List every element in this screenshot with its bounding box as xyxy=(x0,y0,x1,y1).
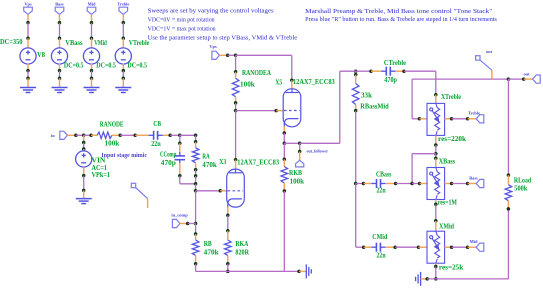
pin stub RA 2 xyxy=(195,163,197,170)
wire CTreble to XTreble corner xyxy=(404,70,436,72)
wire to CComp junction xyxy=(195,176,197,184)
node X5 plate pin xyxy=(290,78,294,82)
pin stub XTreble wiper xyxy=(419,118,427,120)
triode X5 12AX7_ECC83 xyxy=(283,89,301,127)
pin end node source VTreble + xyxy=(122,36,126,40)
pin stub below port Mid xyxy=(91,14,93,22)
pin stub XMid 1 xyxy=(435,221,437,231)
pin end node V8 - xyxy=(26,69,30,73)
wire RA upper xyxy=(195,135,197,141)
resistor RA 470k xyxy=(192,148,199,163)
svg-text:CTreble: CTreble xyxy=(384,60,406,67)
wire CComp upper xyxy=(179,135,181,143)
wire out line xyxy=(412,78,508,80)
node CComp pin 1 xyxy=(178,141,182,145)
ground under VIN xyxy=(76,199,92,204)
svg-text:RB: RB xyxy=(204,241,212,248)
wire RB to ground rail xyxy=(195,264,197,272)
ground pin stub VTreble xyxy=(122,78,124,87)
pin stub CComp 2 xyxy=(179,163,181,176)
pin stub CTreble 1 xyxy=(371,70,381,72)
pin stub RANODEA 2 xyxy=(235,97,237,103)
ground (middle rail) xyxy=(306,264,311,278)
node RB pin 1 xyxy=(194,232,198,236)
wire CComp to RA bottom xyxy=(180,183,196,185)
port Vps (mid) xyxy=(212,51,220,59)
svg-text:DC=0.5: DC=0.5 xyxy=(96,63,116,70)
wire follower node right xyxy=(284,142,299,144)
capacitor CTreble 470p xyxy=(381,67,395,76)
wire Mid to source xyxy=(91,23,93,38)
junction follower node xyxy=(283,142,287,146)
wire RBassMid node down to CMid xyxy=(355,184,357,248)
node CMid pin 2 xyxy=(393,245,397,249)
svg-text:33k: 33k xyxy=(361,93,372,100)
wire CB to CComp tap xyxy=(170,134,180,136)
svg-text:RLoad: RLoad xyxy=(514,178,531,185)
wire CBass to riser junction xyxy=(396,183,413,185)
wire XBass control to port xyxy=(452,183,468,185)
node CB pin 2 xyxy=(168,134,172,138)
pin stub XMid control xyxy=(445,246,452,248)
wire to X3 grid node xyxy=(195,184,197,191)
pin stub port in xyxy=(67,134,76,136)
svg-text:22n: 22n xyxy=(377,253,386,260)
svg-text:12AX7_ECC83: 12AX7_ECC83 xyxy=(237,160,279,167)
node RKA pin 1 xyxy=(226,229,230,233)
port Treble xyxy=(119,7,128,14)
node RANODEA pin 2 xyxy=(234,101,238,105)
pin end node Vps xyxy=(26,21,30,25)
wire CBass node riser to XTreble bottom xyxy=(412,153,436,155)
pin stub RBassMid 2 xyxy=(355,105,357,111)
ground under VTreble xyxy=(115,88,131,93)
pin stub CB 1 xyxy=(135,134,148,136)
wire RA lower xyxy=(195,170,197,176)
svg-text:CBass: CBass xyxy=(376,172,392,179)
svg-text:Mid: Mid xyxy=(470,239,478,244)
svg-text:VPk=1: VPk=1 xyxy=(92,172,111,179)
svg-text:820R: 820R xyxy=(235,250,249,257)
pin stub X5 cathode xyxy=(283,126,285,133)
pin stub XBass 1 xyxy=(435,158,437,167)
pin stub VIN - xyxy=(83,167,85,175)
wire XTreble control to port xyxy=(452,118,468,120)
pin stub VBass + xyxy=(59,38,61,48)
wire VIN tap to RANODE xyxy=(84,134,91,136)
node RANODE pin 1 xyxy=(89,134,93,138)
node CComp pin 2 xyxy=(178,174,182,178)
pin stub RKB 1 xyxy=(283,159,285,166)
ground pin stub VMid xyxy=(91,78,93,87)
wire in to VIN tap xyxy=(76,134,84,136)
pin stub CBass 2 xyxy=(386,183,396,185)
svg-text:Mid: Mid xyxy=(88,1,96,6)
svg-text:470p: 470p xyxy=(384,77,397,84)
pin stub XTreble 1 xyxy=(435,95,437,104)
node XBass pin 1 xyxy=(434,156,438,160)
node RBassMid pin 2 xyxy=(354,109,358,113)
wire RANODEA upper xyxy=(235,55,237,72)
wire XMid to ground rail xyxy=(435,267,437,279)
wire riser to RBassMid junction xyxy=(340,70,356,72)
node ground pin (middle rail) xyxy=(297,270,301,274)
svg-text:470p: 470p xyxy=(161,160,176,167)
pin stub XBass 2 xyxy=(435,200,437,205)
pin stub below port Bass xyxy=(59,14,61,22)
svg-text:X5: X5 xyxy=(275,80,283,87)
junction out_follower tap xyxy=(298,142,302,146)
node XTreble control pin xyxy=(450,117,454,121)
resistor RANODEA 100k xyxy=(232,78,239,97)
wire down to XTreble top xyxy=(435,71,437,94)
ground under VBass xyxy=(52,88,68,93)
pin stub X3 grid xyxy=(220,190,227,192)
node XBass wiper pin xyxy=(418,182,422,186)
junction CComp / RA column xyxy=(194,182,198,186)
node RLoad pin 2 xyxy=(507,207,511,211)
wire Treble to source xyxy=(122,23,124,38)
pin end node source VMid + xyxy=(90,36,94,40)
node Vps port pin xyxy=(226,54,230,58)
pin stub VBass - xyxy=(59,64,61,71)
wire RANODE to CB xyxy=(120,134,135,136)
svg-text:CComp: CComp xyxy=(160,151,177,158)
svg-text:100k: 100k xyxy=(240,82,255,89)
ground pin stub (middle rail) xyxy=(299,270,306,272)
pin stub XMid wiper xyxy=(419,246,428,248)
pin stub RB 1 xyxy=(195,234,197,240)
pin end node VMid - xyxy=(90,69,94,73)
node Bass port pin xyxy=(466,182,470,186)
node CBass pin 2 xyxy=(394,182,398,186)
svg-text:470k: 470k xyxy=(204,250,219,257)
ground pin node VBass xyxy=(58,76,62,80)
pin stub VIN + xyxy=(83,149,85,151)
ground pin stub VIN xyxy=(83,190,85,198)
svg-text:out_follower: out_follower xyxy=(307,149,329,154)
node Mid port pin xyxy=(466,245,470,249)
node X3 cathode pin xyxy=(226,214,230,218)
ground pin node VTreble xyxy=(122,76,126,80)
pin stub below port Treble xyxy=(122,14,124,22)
capacitor CB 22n xyxy=(148,131,162,140)
svg-text:CMid: CMid xyxy=(372,234,387,241)
wire X5 cathode down xyxy=(283,133,285,143)
probe marker out xyxy=(476,56,492,70)
wire RBassMid upper xyxy=(355,71,357,74)
capacitor CComp 470p xyxy=(175,152,185,163)
pin stub CTreble 2 xyxy=(396,70,404,72)
wire right ground rail xyxy=(427,278,508,280)
pin stub RKB 2 xyxy=(283,183,285,191)
node CBass pin 1 xyxy=(362,182,366,186)
node out_follower pin xyxy=(298,150,302,154)
wire CComp down xyxy=(179,176,181,184)
svg-text:100k: 100k xyxy=(105,140,120,147)
junction XTreble bottom / XBass wiper branch xyxy=(434,152,438,156)
junction Vps / RANODEA xyxy=(234,54,238,58)
junction RA top corner xyxy=(194,134,198,138)
node VIN pin + xyxy=(82,147,86,151)
junction XMid / right ground rail xyxy=(434,277,438,281)
wire corner to CMid xyxy=(356,246,364,248)
svg-text:DC=0.5: DC=0.5 xyxy=(127,63,147,70)
port Bass xyxy=(476,179,484,187)
voltage source VMid xyxy=(83,48,99,64)
pin stub CMid 1 xyxy=(364,246,371,248)
wire CComp tap to RA corner xyxy=(180,134,196,136)
svg-text:Vps: Vps xyxy=(209,44,217,49)
junction RANODEA / X5 grid / X3 plate xyxy=(234,109,238,113)
node RLoad pin 1 xyxy=(507,173,511,177)
svg-text:V8: V8 xyxy=(37,52,46,59)
wire to CBass xyxy=(356,183,364,185)
wire XBass to XMid xyxy=(435,204,437,220)
probe marker stub (out) xyxy=(491,70,493,79)
node VIN wire top xyxy=(82,141,86,145)
wire XTreble to branch node xyxy=(435,145,437,154)
svg-text:Use the parameter setup to ste: Use the parameter setup to step VBass, V… xyxy=(148,35,298,41)
node XTreble wiper pin xyxy=(418,117,422,121)
pin end node VTreble - xyxy=(122,69,126,73)
wire to X5 grid xyxy=(236,110,277,112)
svg-text:XBass: XBass xyxy=(439,159,456,166)
ground pin node VMid xyxy=(90,76,94,80)
voltage source V8 xyxy=(20,48,36,64)
node X5 grid pin xyxy=(274,109,278,113)
wire RANODEA to grid node xyxy=(235,103,237,111)
pin stub port Vps xyxy=(220,54,228,56)
svg-text:470k: 470k xyxy=(202,162,217,169)
pin stub RKA 1 xyxy=(227,231,229,240)
potentiometer XTreble res=220k xyxy=(427,103,445,135)
svg-text:Treble: Treble xyxy=(468,111,480,116)
wire to VIN + xyxy=(83,143,85,149)
junction in_comp / RB xyxy=(194,222,198,226)
node VIN ground pin xyxy=(82,189,86,193)
pin stub X3 cathode xyxy=(227,207,229,215)
svg-text:Input stage mimic: Input stage mimic xyxy=(101,153,147,159)
svg-text:RANODEA: RANODEA xyxy=(242,70,271,77)
ground pin stub V8 xyxy=(27,78,29,87)
pin stub RANODEA 1 xyxy=(235,72,237,79)
ground pin node V8 xyxy=(26,76,30,80)
pin stub X3 plate xyxy=(235,160,237,170)
pin stub CMid 2 xyxy=(386,246,395,248)
pin stub CB 2 xyxy=(163,134,170,136)
svg-text:out: out xyxy=(523,72,530,77)
ground under VMid xyxy=(84,88,100,93)
node RB pin 2 xyxy=(194,262,198,266)
node Treble port pin xyxy=(466,117,470,121)
capacitor CMid 22n xyxy=(371,243,385,252)
node RA pin 2 xyxy=(194,168,198,172)
voltage source VIN xyxy=(76,151,92,167)
wire RKA to ground rail xyxy=(227,264,229,272)
pin stub VMid + xyxy=(91,38,93,48)
junction VIN tap xyxy=(82,134,86,138)
node ground pin (right rail) xyxy=(425,277,429,281)
probe marker (floating, near VIN) xyxy=(131,183,147,198)
pin stub port Bass xyxy=(468,183,477,185)
pin stub RB 2 xyxy=(195,255,197,263)
node RANODEA pin 1 xyxy=(234,70,238,74)
svg-text:22n: 22n xyxy=(377,188,386,195)
wire VBass to ground xyxy=(59,71,61,78)
wire grid node down to X3 plate xyxy=(235,111,237,160)
resistor RLoad 500k xyxy=(505,185,512,201)
svg-text:res=1M: res=1M xyxy=(438,200,458,207)
svg-text:res=25k: res=25k xyxy=(439,265,464,272)
wire to RB top xyxy=(195,224,197,234)
node out port pin xyxy=(522,77,526,81)
node RANODE pin 2 xyxy=(118,134,122,138)
svg-text:RKB: RKB xyxy=(289,170,302,177)
wire grid node down to in_comp node xyxy=(195,191,197,224)
wire out line down to RLoad xyxy=(507,79,509,175)
pin end node Treble xyxy=(122,21,126,25)
resistor RANODE 100k xyxy=(97,132,112,138)
ground pin stub VBass xyxy=(59,78,61,87)
capacitor CBass 22n xyxy=(371,179,385,188)
pin stub port Mid xyxy=(468,246,477,248)
junction X3 grid node xyxy=(194,189,198,193)
pin stub X5 grid xyxy=(276,110,283,112)
wire to XBass wiper pin xyxy=(412,183,419,185)
port Bass xyxy=(55,7,64,14)
wire ground rail (middle) xyxy=(196,270,300,272)
port Mid xyxy=(87,7,96,14)
junction CComp tap xyxy=(178,134,182,138)
pin stub VTreble + xyxy=(122,38,124,48)
svg-text:Treble: Treble xyxy=(117,1,129,6)
pin stub port in_comp xyxy=(180,223,188,225)
junction CTreble line / RBassMid xyxy=(354,69,358,73)
pin stub below port Vps xyxy=(27,14,29,22)
wire in_comp port to node xyxy=(188,223,196,225)
pin stub CComp 1 xyxy=(179,143,181,153)
wire V8 to ground xyxy=(27,71,29,78)
node XBass pin 2 xyxy=(434,203,438,207)
voltage source VTreble xyxy=(115,48,131,64)
pin stub XTreble 2 xyxy=(435,135,437,144)
wire wiper riser to XTreble xyxy=(412,118,419,120)
svg-text:RANODE: RANODE xyxy=(100,122,124,129)
node RA pin 1 xyxy=(194,140,198,144)
pin stub V8 - xyxy=(27,64,29,71)
svg-text:Vps: Vps xyxy=(24,1,32,6)
wire follower node to riser xyxy=(300,142,340,144)
svg-text:XTreble: XTreble xyxy=(441,94,461,101)
wire X3 cathode to RKA xyxy=(227,215,229,230)
wire to RKB top xyxy=(283,143,285,159)
pin stub port Treble xyxy=(468,118,477,120)
pin end node Mid xyxy=(90,21,94,25)
wire RBassMid down to CBass node xyxy=(355,111,357,184)
pin end node source V8 + xyxy=(26,36,30,40)
wire RKB to ground rail xyxy=(283,191,285,271)
wire CMid to XMid wiper xyxy=(395,246,418,248)
wire RLoad bottom xyxy=(507,209,509,279)
svg-text:Sweeps are set by varying the: Sweeps are set by varying the control vo… xyxy=(148,9,275,15)
port Treble xyxy=(476,115,484,123)
svg-text:100k: 100k xyxy=(290,179,305,186)
node RKB pin 2 xyxy=(283,189,287,193)
node X5 cathode pin xyxy=(283,131,287,135)
ground under V8 xyxy=(20,88,36,93)
node XMid control pin xyxy=(450,245,454,249)
svg-text:VDC=0V = min pot rotation: VDC=0V = min pot rotation xyxy=(148,18,215,24)
resistor RKB 100k xyxy=(281,167,288,184)
svg-text:XMid: XMid xyxy=(439,224,454,231)
svg-text:X3: X3 xyxy=(219,159,227,166)
pin stub RLoad 1 xyxy=(507,175,509,185)
node RKB pin 1 xyxy=(283,158,287,162)
node RKA pin 2 xyxy=(226,262,230,266)
svg-text:in_comp: in_comp xyxy=(171,213,188,218)
port out_follower xyxy=(296,160,304,167)
wire Vps to X5 plate corner xyxy=(236,54,292,56)
svg-text:Bass: Bass xyxy=(469,175,478,180)
svg-text:RA: RA xyxy=(202,154,210,161)
pin stub port out xyxy=(524,78,533,80)
pin stub XBass wiper xyxy=(420,183,427,185)
port Mid xyxy=(476,243,484,251)
potentiometer XMid res=25k xyxy=(427,231,445,263)
wire grid node to X3 grid xyxy=(196,190,221,192)
resistor RBassMid 33k xyxy=(352,84,359,105)
port Vps xyxy=(24,7,33,14)
node CTreble pin 2 xyxy=(402,69,406,73)
port in xyxy=(60,131,68,139)
svg-text:DC=350: DC=350 xyxy=(0,39,23,46)
svg-text:VTreble: VTreble xyxy=(129,40,150,47)
svg-text:RKA: RKA xyxy=(235,241,248,248)
node XTreble pin 1 xyxy=(434,93,438,97)
svg-text:500k: 500k xyxy=(514,186,527,193)
svg-text:RBassMid: RBassMid xyxy=(360,103,389,110)
wire VMid to ground xyxy=(91,71,93,78)
wire out to port xyxy=(508,78,523,80)
wire down to out_follower pin xyxy=(299,143,301,151)
svg-text:out: out xyxy=(486,49,493,54)
probe marker stub xyxy=(147,199,149,208)
node X3 grid pin xyxy=(219,189,223,193)
pin stub RLoad 2 xyxy=(507,201,509,209)
pin stub VMid - xyxy=(91,64,93,71)
wire XMid control to port xyxy=(452,246,468,248)
svg-text:res=220k: res=220k xyxy=(438,136,466,143)
pin stub RKA 2 xyxy=(227,255,229,263)
voltage source VBass xyxy=(51,48,67,64)
wire riser up to CTreble line xyxy=(339,71,341,143)
ground pin stub (right rail) xyxy=(421,278,427,280)
wire VTreble to ground xyxy=(122,71,124,78)
wire out line down (wiper riser) xyxy=(411,79,413,119)
pin stub X5 plate xyxy=(291,80,293,89)
node X3 plate pin xyxy=(234,158,238,162)
pin stub RA 1 xyxy=(195,142,197,148)
wire Vps to source xyxy=(27,23,29,38)
svg-text:VDC=1V = max pot rotation: VDC=1V = max pot rotation xyxy=(148,27,216,33)
resistor RB 470k xyxy=(192,240,199,255)
junction out / RLoad xyxy=(507,77,511,81)
pin stub RANODE 2 xyxy=(112,134,120,136)
wire down to X5 plate xyxy=(291,55,293,80)
pin stub XTreble control xyxy=(445,118,452,120)
svg-text:Press blue "R" button to run.: Press blue "R" button to run. Bass & Tre… xyxy=(305,17,497,23)
